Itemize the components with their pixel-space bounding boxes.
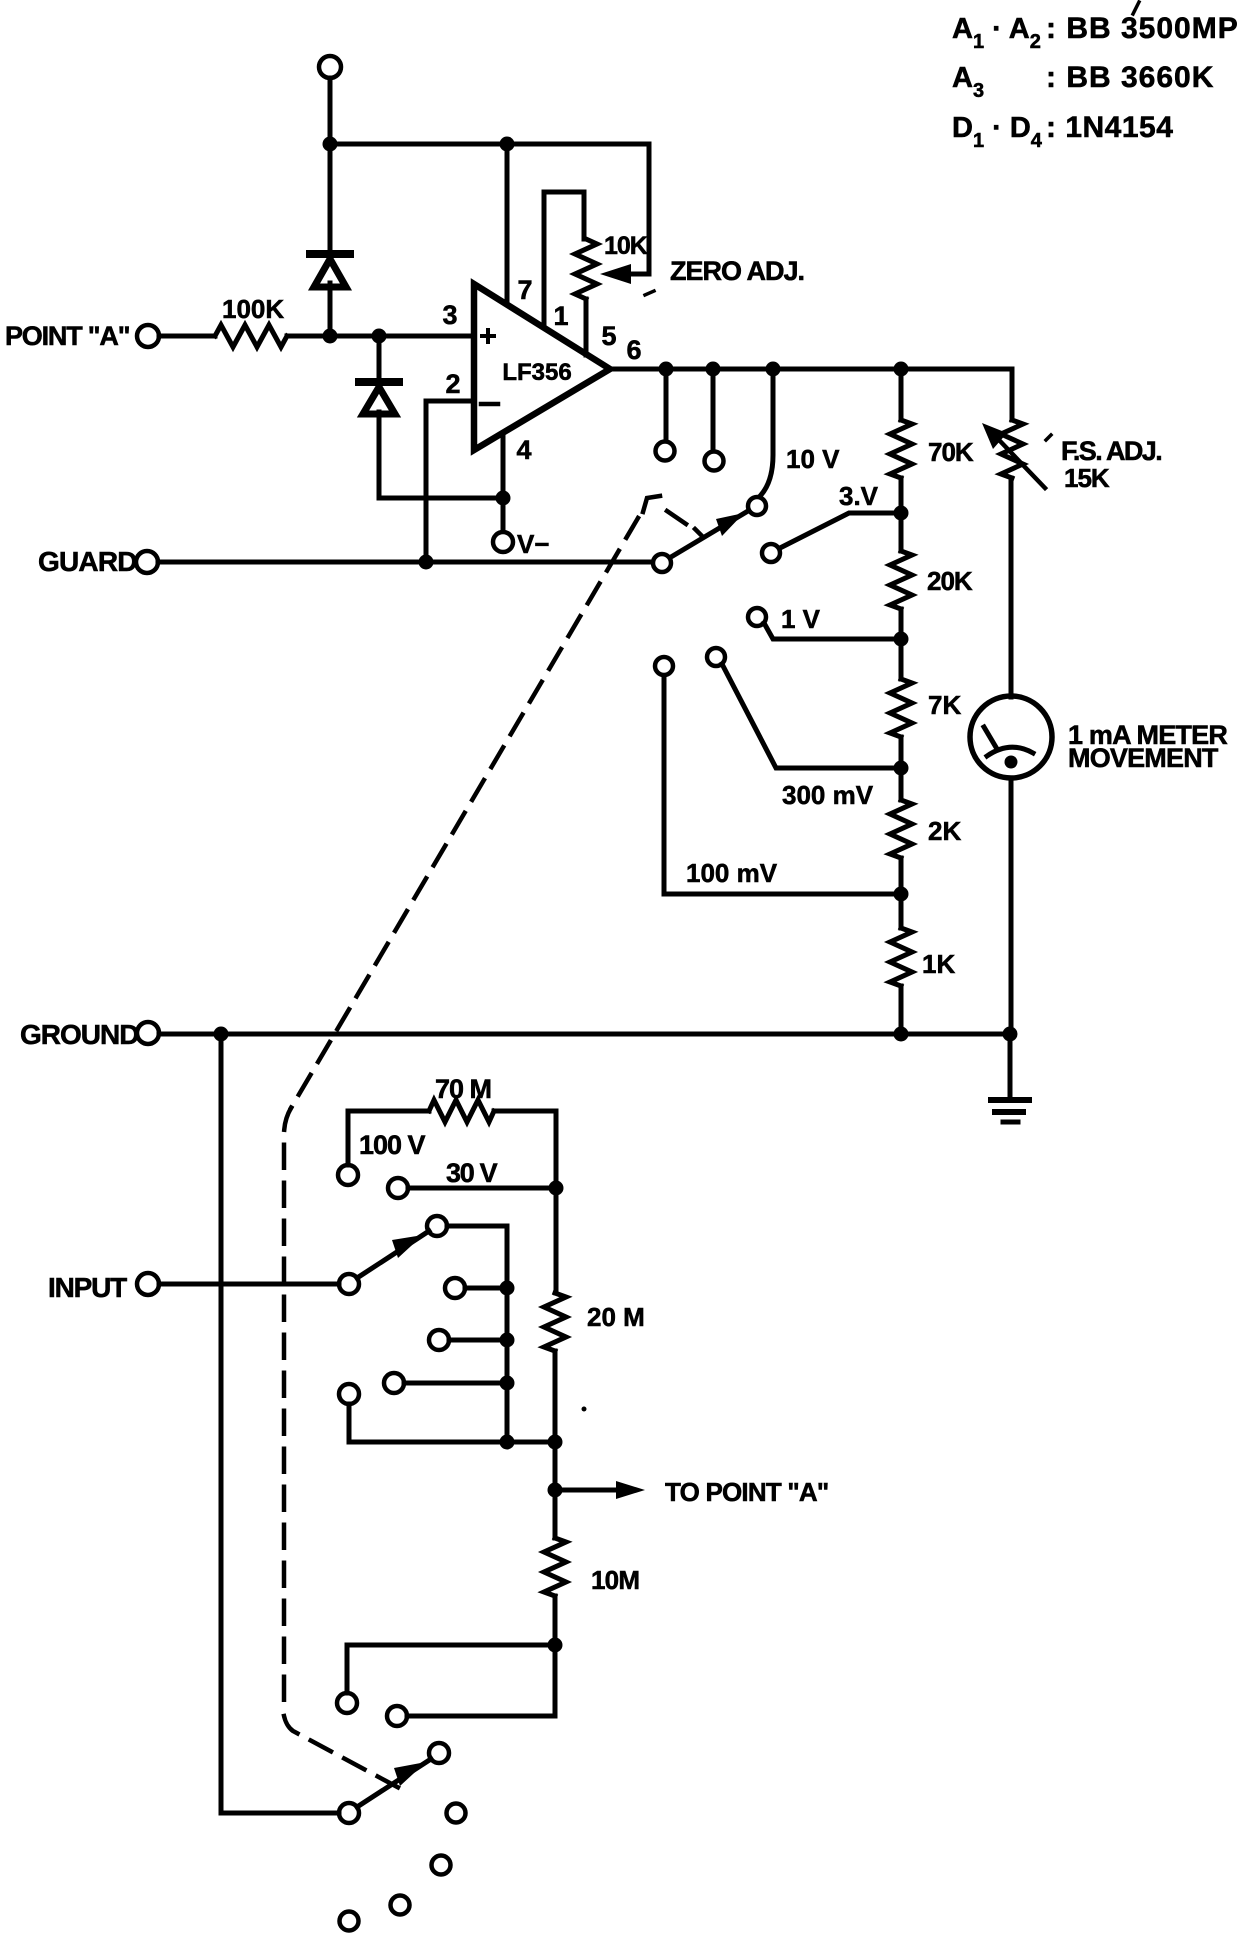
arrowhead S2a wiper	[392, 1235, 423, 1258]
svg-text:1K: 1K	[922, 949, 955, 979]
svg-text:: BB 3660K: : BB 3660K	[1046, 61, 1214, 94]
wire POINT A to resistor 100K	[159, 334, 215, 339]
resistor 7K	[890, 679, 912, 737]
wire tie 1	[465, 1286, 507, 1291]
resistor 100K	[215, 325, 287, 347]
switch S2b wiper arm	[357, 1759, 431, 1807]
stray apostrophe top right	[1133, 2, 1139, 14]
wire D2 bottom horizontal to pin 4 node	[379, 496, 503, 501]
svg-text:GUARD: GUARD	[38, 546, 137, 577]
contact unused 1	[447, 1804, 466, 1823]
svg-text:10K: 10K	[604, 232, 648, 260]
svg-text:70K: 70K	[928, 437, 974, 467]
svg-text:V−: V−	[517, 529, 550, 559]
wire ground rail down to lower switch common	[219, 1034, 224, 1813]
contact 10M left	[337, 1693, 357, 1713]
wire FS adj to meter	[1009, 478, 1014, 697]
terminal POINT "A"	[137, 325, 159, 347]
resistor 70M	[429, 1100, 494, 1122]
resistor 70K	[890, 420, 912, 478]
terminal INPUT	[137, 1273, 159, 1295]
svg-text:2: 2	[445, 369, 460, 399]
svg-text:3: 3	[442, 300, 457, 330]
resistor 10M	[544, 1538, 566, 1596]
svg-text:1: 1	[553, 301, 568, 331]
contact selected (switch S2a)	[427, 1216, 447, 1236]
wire D1 to input node	[328, 283, 333, 336]
terminal GUARD	[136, 551, 158, 573]
wire 70M to 30V node	[494, 1111, 556, 1188]
wire 10M bottom	[553, 1596, 558, 1645]
wire 100V contact to 70M	[348, 1111, 429, 1165]
dashed gang linkage hook dash 2	[695, 529, 703, 537]
terminal GROUND	[137, 1022, 159, 1044]
dashed gang linkage hook dash	[667, 511, 686, 524]
contact 100V (range)	[338, 1165, 358, 1185]
potentiometer 10K (zero adj)	[575, 239, 597, 299]
contact 300mV	[707, 648, 725, 666]
wire node to diode D2	[377, 336, 382, 379]
wire 100K to op-amp pin 3	[287, 334, 474, 339]
op-amp minus input mark	[481, 402, 498, 407]
contact 1V	[748, 608, 766, 626]
wire 30V node to 20M	[554, 1188, 559, 1293]
svg-text:20K: 20K	[927, 566, 973, 596]
wire 10V branch	[761, 369, 773, 495]
wire INPUT to switch S2a common	[159, 1282, 339, 1287]
svg-text:100K: 100K	[222, 294, 284, 324]
svg-text:70 M: 70 M	[435, 1074, 491, 1104]
arrowhead S2b wiper	[394, 1762, 426, 1786]
wire 10K to pin 5	[584, 299, 589, 355]
svg-text:GROUND: GROUND	[20, 1019, 139, 1050]
resistor 20M	[544, 1293, 566, 1351]
wire 20M to 10M via point A node	[553, 1351, 558, 1538]
svg-text:TO POINT "A": TO POINT "A"	[665, 1477, 828, 1507]
svg-text:100 V: 100 V	[359, 1130, 426, 1160]
svg-text:10 V: 10 V	[786, 444, 840, 474]
wire pin 2 to guard rail	[426, 401, 474, 562]
svg-text:300 mV: 300 mV	[782, 780, 874, 810]
contact 10V	[748, 497, 766, 515]
wire GUARD rail	[158, 560, 652, 565]
ground symbol	[991, 1097, 1029, 1103]
terminal V+ (top supply)	[319, 56, 341, 78]
wire pin 7 to top rail	[505, 144, 510, 304]
contact output stub A	[656, 442, 675, 461]
wire output rail to FS adj	[1010, 369, 1015, 420]
wire to lower switch common	[221, 1811, 339, 1816]
resistor 1K	[890, 928, 912, 986]
wire tie 4 bottom	[349, 1404, 555, 1442]
terminal V-	[493, 532, 513, 552]
diode D2	[359, 378, 399, 386]
wire 10M node to contact right	[407, 1645, 555, 1716]
svg-text:POINT "A": POINT "A"	[5, 321, 130, 351]
switch S1a wiper arm	[671, 511, 748, 557]
stray mark near ZERO ADJ	[645, 291, 654, 295]
stray speck near tie column	[582, 1407, 587, 1412]
contact 10M right	[387, 1706, 407, 1726]
wire D2 to pin 4 node	[377, 412, 382, 498]
wire output rail	[610, 367, 1012, 372]
svg-text:INPUT: INPUT	[48, 1272, 127, 1303]
svg-text:20 M: 20 M	[587, 1302, 645, 1332]
wire to ground symbol	[1008, 1034, 1013, 1098]
svg-text:10M: 10M	[591, 1565, 639, 1595]
contact tie 4	[339, 1384, 359, 1404]
svg-text:4: 4	[516, 435, 531, 465]
wire top rail horizontal	[330, 142, 649, 147]
svg-text:7K: 7K	[928, 690, 961, 720]
contact unused 4	[340, 1912, 359, 1931]
switch S2a common contact	[339, 1274, 359, 1294]
svg-text:7: 7	[517, 275, 532, 305]
svg-text:F.S. ADJ.: F.S. ADJ.	[1061, 436, 1161, 466]
wire 1K to ground rail	[899, 986, 904, 1035]
dashed gang linkage vertical	[284, 1108, 291, 1712]
wire GROUND rail	[159, 1032, 1010, 1037]
wire 100mV tap	[664, 676, 901, 894]
wire tie 2	[449, 1338, 507, 1343]
diode D1	[310, 250, 350, 258]
contact unused 3	[391, 1896, 410, 1915]
wire 7K to 2K	[899, 737, 904, 800]
svg-text:: 1N4154: : 1N4154	[1046, 111, 1173, 144]
contact tie 1	[445, 1278, 465, 1298]
wire 3V tap	[780, 513, 901, 548]
svg-text:LF356: LF356	[502, 359, 571, 386]
wire 1V tap	[764, 623, 901, 639]
wire 20K to 7K	[899, 609, 904, 679]
contact 100mV	[655, 657, 673, 675]
dashed gang linkage upper elbow	[643, 496, 660, 512]
wire tie 3	[404, 1381, 507, 1386]
contact tie 3	[384, 1373, 404, 1393]
stray mark before F.S. ADJ	[1046, 435, 1051, 440]
contact unused 2	[432, 1856, 451, 1875]
svg-text:30 V: 30 V	[446, 1158, 498, 1188]
dashed gang linkage lower diagonal	[284, 1716, 401, 1789]
wire V+ terminal to top rail	[328, 78, 333, 144]
svg-text:15K: 15K	[1064, 463, 1110, 493]
potentiometer F.S. ADJ 15K	[1001, 420, 1023, 478]
wire selected contact down the tie column	[447, 1226, 507, 1442]
svg-text:5: 5	[601, 321, 616, 351]
wire column to point A node	[553, 1442, 558, 1490]
wire ladder top	[899, 369, 904, 420]
contact output stub B	[705, 452, 724, 471]
wire pin 4 down to V- terminal	[501, 433, 506, 531]
arrowhead S1a wiper	[716, 513, 744, 536]
arrowhead TO POINT "A"	[616, 1481, 645, 1499]
switch S2b common contact	[339, 1803, 359, 1823]
wire 30V contact to column	[408, 1186, 556, 1191]
contact selected (switch S2b)	[429, 1743, 449, 1763]
wire pin 1 loop	[544, 192, 584, 326]
wire meter to ground rail	[1009, 778, 1014, 1035]
wire top rail right drop to zero-adj wiper	[647, 144, 652, 274]
wire 300mV tap	[722, 664, 901, 768]
svg-text:ZERO ADJ.: ZERO ADJ.	[670, 256, 804, 286]
wire 2K to 1K	[899, 858, 904, 928]
wire 10M node to contact left	[347, 1645, 555, 1693]
meter M1 1mA movement	[970, 696, 1052, 778]
arrow F.S. adj wiper	[1000, 441, 1045, 488]
wire top rail to diode D1	[328, 144, 333, 250]
wire 70K to 20K	[899, 478, 904, 551]
wire to point A arrow	[555, 1488, 620, 1493]
contact 30V (range)	[388, 1178, 408, 1198]
wire output stub contact B	[711, 369, 716, 450]
switch S2a wiper arm	[357, 1231, 429, 1278]
svg-text:3.V: 3.V	[839, 481, 879, 511]
wire zero-adj wiper stub	[630, 272, 649, 277]
svg-text:MOVEMENT: MOVEMENT	[1068, 743, 1219, 773]
contact tie 2	[429, 1330, 449, 1350]
svg-text:1 V: 1 V	[781, 604, 821, 634]
svg-text:: BB 3500MP: : BB 3500MP	[1046, 12, 1239, 45]
op-amp plus input mark	[482, 330, 494, 342]
svg-text:6: 6	[626, 335, 641, 365]
wire output stub contact A	[664, 369, 669, 440]
resistor 20K	[890, 551, 912, 609]
svg-text:2K: 2K	[928, 816, 961, 846]
svg-text:100 mV: 100 mV	[686, 858, 778, 888]
arrowhead zero adj wiper	[600, 264, 631, 284]
resistor 2K	[890, 800, 912, 858]
switch S1a common contact	[653, 554, 671, 572]
op-amp A1 LF356	[474, 284, 610, 450]
dashed gang linkage main diagonal	[291, 518, 638, 1108]
contact 3V	[762, 544, 780, 562]
junction dots	[323, 137, 338, 152]
